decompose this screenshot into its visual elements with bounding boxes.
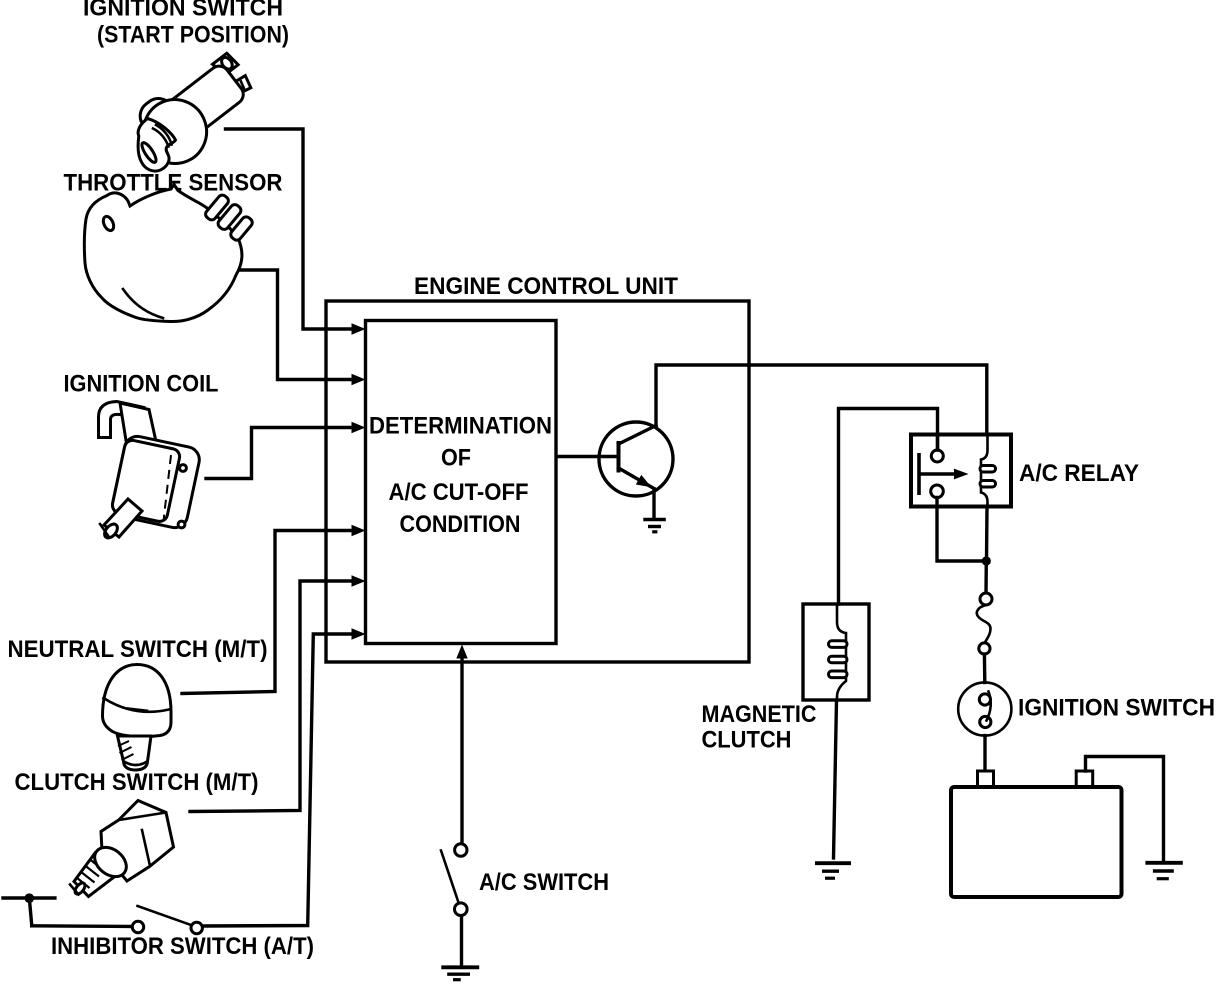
svg-text:A/C CUT-OFF: A/C CUT-OFF — [389, 479, 529, 506]
wire: relay lower contact down to junction — [937, 498, 984, 562]
svg-text:A/C RELAY: A/C RELAY — [1019, 460, 1139, 487]
svg-text:IGNITION SWITCH: IGNITION SWITCH — [83, 0, 283, 22]
inhibitor switch (A/T) symbol — [3, 893, 202, 933]
wire: ignition switch to battery positive — [983, 736, 986, 771]
svg-text:CLUTCH SWITCH (M/T): CLUTCH SWITCH (M/T) — [15, 769, 259, 796]
svg-text:ENGINE CONTROL UNIT: ENGINE CONTROL UNIT — [414, 273, 678, 300]
wire: ignition coil to ECU pin 3 — [206, 422, 366, 479]
clutch switch component drawing — [70, 801, 174, 897]
neutral switch component drawing — [103, 665, 172, 771]
svg-text:CLUTCH: CLUTCH — [702, 726, 792, 753]
svg-text:IGNITION SWITCH: IGNITION SWITCH — [1018, 695, 1215, 722]
svg-text:CONDITION: CONDITION — [400, 511, 521, 538]
fusible link (squiggle with terminals) — [977, 593, 992, 654]
ECU outer box — [326, 301, 749, 662]
wire: A/C switch riser into ECU bottom — [456, 645, 467, 844]
wire: transistor collector to A/C relay — [656, 365, 987, 435]
wire: throttle sensor to ECU pin 2 — [230, 270, 366, 385]
svg-text:OF: OF — [441, 445, 471, 472]
ignition coil component drawing — [99, 402, 202, 541]
svg-text:DETERMINATION: DETERMINATION — [369, 413, 552, 440]
svg-text:MAGNETIC: MAGNETIC — [702, 701, 817, 728]
wire: neutral switch to ECU pin 4 — [182, 525, 366, 694]
svg-text:A/C SWITCH: A/C SWITCH — [479, 869, 609, 896]
A/C relay — [911, 435, 1011, 507]
ground (battery) — [1145, 863, 1182, 879]
svg-text:IGNITION COIL: IGNITION COIL — [64, 371, 219, 398]
node: junction below relay — [982, 556, 991, 565]
wire: relay coil bottom down to junction — [985, 507, 989, 562]
battery — [951, 771, 1122, 897]
wire: clutch switch to ECU pin 5 — [190, 575, 366, 811]
throttle sensor component drawing — [84, 185, 254, 322]
wire: fusible link to ignition switch — [983, 654, 987, 683]
wire: ignition switch to ECU pin 1 — [226, 129, 366, 335]
label: MAGNETIC CLUTCH — [702, 701, 817, 753]
svg-text:(START POSITION): (START POSITION) — [97, 22, 289, 49]
A/C switch symbol — [441, 844, 467, 965]
ground (A/C switch) — [441, 967, 479, 979]
ECU inner box: determination of A/C cut-off condition — [366, 321, 557, 644]
wire: relay contact to magnetic clutch — [839, 409, 938, 605]
ground (transistor emitter) — [643, 520, 666, 532]
transistor Q1 — [557, 422, 673, 517]
ground (magnetic clutch) — [815, 863, 851, 878]
ignition switch component drawing (cylinder with key) — [134, 45, 264, 172]
wire: inhibitor switch to ECU pin 6 — [203, 628, 366, 926]
wire: magnetic clutch to ground — [834, 700, 837, 858]
wire: junction to fusible link — [984, 561, 988, 594]
wire: battery negative to ground — [1086, 757, 1164, 862]
ignition switch (key switch symbol) — [958, 682, 1011, 735]
magnetic clutch box and coil — [803, 604, 869, 700]
svg-text:INHIBITOR SWITCH (A/T): INHIBITOR SWITCH (A/T) — [51, 933, 314, 960]
svg-text:NEUTRAL SWITCH (M/T): NEUTRAL SWITCH (M/T) — [8, 636, 268, 663]
label: IGNITION SWITCH (START POSITION) — [83, 0, 289, 49]
